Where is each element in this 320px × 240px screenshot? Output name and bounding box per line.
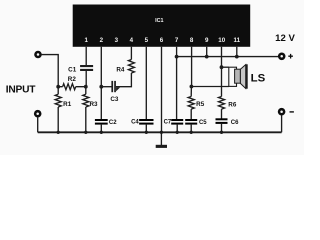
svg-text:12 V: 12 V	[275, 33, 295, 44]
svg-text:8: 8	[190, 37, 194, 44]
wire 12V rail	[177, 56, 278, 58]
svg-text:LS: LS	[251, 73, 266, 85]
wire C4 to rail	[145, 125, 147, 133]
wire pin 11 to 12V rail	[236, 47, 238, 57]
wire to speaker top	[222, 66, 229, 68]
resistor R1	[55, 94, 61, 107]
svg-text:R5: R5	[196, 101, 205, 108]
rail junction node x=221.5	[220, 131, 223, 134]
12V supply terminal +	[278, 53, 286, 61]
op-amp IC U1 body	[73, 5, 251, 47]
svg-text:C2: C2	[109, 120, 117, 126]
svg-text:C4: C4	[131, 120, 139, 126]
wire pin 9 to 12V rail	[206, 47, 208, 57]
capacitor C5	[185, 119, 197, 121]
resistor R2	[63, 84, 76, 90]
node speaker top	[220, 65, 224, 69]
resistor R6	[219, 97, 225, 110]
rail junction node x=101.3	[100, 131, 103, 134]
rail junction node x=146.3	[145, 131, 148, 134]
rail junction node x=177.2	[176, 131, 179, 134]
wire input top to node	[41, 55, 59, 87]
capacitor C6	[216, 118, 228, 120]
resistor R5	[188, 97, 194, 110]
svg-text:C6: C6	[231, 120, 239, 126]
wire C7 to rail	[176, 125, 178, 133]
wire C1 to node A	[85, 71, 87, 87]
rail junction node x=191.2	[190, 131, 193, 134]
node input/R1/R2	[56, 85, 60, 89]
capacitor C2	[95, 119, 108, 121]
wire node to speaker bottom	[191, 86, 228, 88]
capacitor C7	[171, 119, 183, 121]
wire minus terminal to rail	[281, 115, 283, 132]
svg-text:C1: C1	[68, 66, 77, 73]
node pin8/speaker-return	[190, 85, 194, 89]
svg-text:7: 7	[175, 37, 179, 44]
svg-text:10: 10	[218, 37, 225, 44]
node pin11/12V rail	[235, 55, 239, 59]
wire pin 1 down	[85, 47, 87, 65]
rail junction node x=58.2	[57, 131, 60, 134]
wire pin 7 down	[176, 47, 178, 119]
wire input bottom to ground rail	[37, 117, 39, 132]
svg-text:C5: C5	[199, 120, 207, 126]
svg-text:1: 1	[84, 37, 88, 44]
ground rail wire	[38, 131, 282, 133]
wire pin 5 down	[145, 47, 147, 119]
svg-text:C3: C3	[110, 96, 119, 103]
capacitor C3	[101, 86, 111, 88]
svg-text:R6: R6	[228, 101, 237, 108]
rail junction node x=85.8	[84, 131, 87, 134]
node pin7/12V rail	[175, 55, 179, 59]
svg-text:9: 9	[205, 37, 209, 44]
svg-text:IC1: IC1	[155, 18, 163, 24]
svg-text:5: 5	[145, 37, 149, 44]
svg-text:R1: R1	[63, 101, 72, 108]
svg-text:INPUT: INPUT	[6, 84, 37, 95]
svg-text:R4: R4	[116, 66, 125, 73]
negative supply terminal -	[278, 108, 286, 116]
wire C2 to rail	[100, 125, 102, 133]
svg-text:3: 3	[115, 37, 119, 44]
loudspeaker LS	[229, 64, 248, 88]
resistor R4	[128, 60, 134, 74]
svg-text:11: 11	[234, 37, 241, 44]
rail junction node x=161.4	[160, 131, 163, 134]
wire C3 to R4	[116, 73, 131, 87]
svg-text:2: 2	[100, 37, 104, 44]
plus sign	[288, 54, 293, 59]
node B (pin2/C2/C3)	[99, 85, 103, 89]
wire pin 6 to ground rail	[161, 47, 163, 133]
svg-text:C7: C7	[164, 120, 172, 126]
ground	[160, 132, 162, 145]
capacitor C1	[80, 65, 93, 67]
svg-text:R2: R2	[68, 76, 77, 83]
wire C5 to rail	[190, 125, 192, 133]
node A (R2/R3/C1)	[84, 85, 88, 89]
wire pin 2 down	[100, 47, 102, 119]
input terminal bottom	[34, 110, 42, 118]
wire pin 8 down	[191, 47, 193, 87]
svg-text:R3: R3	[89, 101, 98, 108]
node pin9/12V rail	[205, 55, 209, 59]
minus sign	[290, 111, 294, 113]
svg-text:4: 4	[130, 37, 134, 44]
resistor R3	[83, 94, 89, 107]
input terminal top	[34, 51, 42, 59]
C3 polarity mark	[116, 87, 120, 91]
wire pin 10 down (output)	[221, 47, 223, 97]
wire C6 to rail	[221, 124, 223, 132]
capacitor C4	[139, 119, 153, 121]
svg-text:6: 6	[160, 37, 164, 44]
